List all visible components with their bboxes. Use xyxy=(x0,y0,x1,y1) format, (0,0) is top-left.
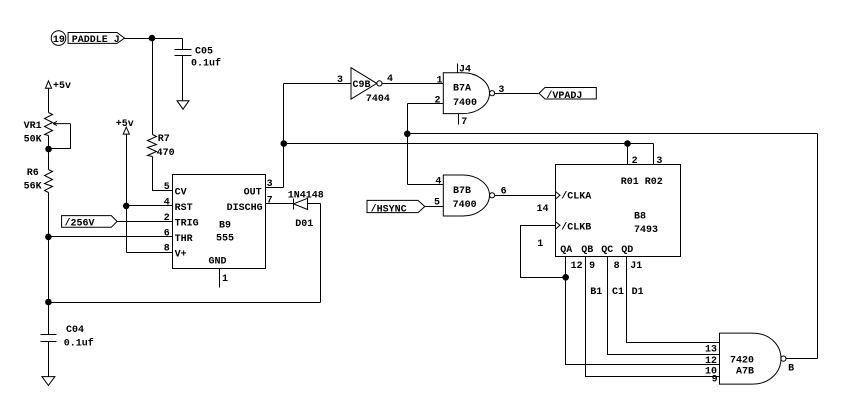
diode D01 xyxy=(293,198,320,209)
svg-text:0.1uf: 0.1uf xyxy=(64,338,94,350)
svg-text:4: 4 xyxy=(435,176,441,187)
svg-text:C9B: C9B xyxy=(353,80,371,91)
wire B7B pin4 xyxy=(408,184,444,186)
svg-text:A7B: A7B xyxy=(736,366,754,377)
wire feedback vertical xyxy=(407,104,409,185)
svg-text:1: 1 xyxy=(437,75,443,86)
svg-text:555: 555 xyxy=(216,234,234,245)
svg-text:B7B: B7B xyxy=(453,186,471,197)
svg-text:B9: B9 xyxy=(219,220,231,231)
wire feedback right vertical xyxy=(817,134,819,359)
svg-text:2: 2 xyxy=(435,96,441,107)
svg-text:1: 1 xyxy=(222,274,228,285)
svg-text:RST: RST xyxy=(175,203,193,214)
wire OUT vertical xyxy=(283,84,285,188)
node THR junction xyxy=(46,234,52,240)
wire paddle node down to R7 xyxy=(152,39,154,135)
svg-text:0.1uf: 0.1uf xyxy=(191,57,221,69)
wire paddle to C05 xyxy=(125,38,183,40)
svg-text:D1: D1 xyxy=(632,287,644,298)
potentiometer VR1 xyxy=(45,113,53,136)
svg-text:7: 7 xyxy=(267,195,273,206)
flag PADDLE J xyxy=(68,33,124,44)
ground below C05 xyxy=(177,101,189,110)
ground below C04 xyxy=(42,377,55,386)
svg-text:9: 9 xyxy=(712,375,718,386)
pin 14 stub B7A xyxy=(457,64,459,73)
svg-text:2: 2 xyxy=(632,156,638,167)
wire V+ xyxy=(127,252,173,254)
wire R7 to CV xyxy=(153,157,173,191)
svg-text:PADDLE J: PADDLE J xyxy=(72,35,120,46)
wire B7B out to CLKA xyxy=(495,195,556,197)
svg-text:7493: 7493 xyxy=(634,225,658,236)
wire C05 to ground xyxy=(182,56,184,101)
node RST junction xyxy=(123,203,129,209)
svg-text:12: 12 xyxy=(705,356,717,367)
svg-text:R7: R7 xyxy=(158,134,170,145)
resistor R6 xyxy=(45,170,53,193)
pin 3 R02 stub xyxy=(653,144,655,165)
svg-text:B: B xyxy=(788,364,794,375)
svg-text:/HSYNC: /HSYNC xyxy=(371,203,407,215)
connector pin circle 19 xyxy=(51,31,66,46)
svg-text:TRIG: TRIG xyxy=(175,218,199,229)
wire QB pin9 xyxy=(586,257,720,377)
svg-text:CV: CV xyxy=(175,187,187,198)
svg-text:C1: C1 xyxy=(612,287,624,298)
wire return line xyxy=(49,302,321,304)
svg-text:5: 5 xyxy=(164,182,170,193)
svg-text:1N4148: 1N4148 xyxy=(288,191,324,202)
svg-text:THR: THR xyxy=(175,234,193,245)
svg-text:/CLKA: /CLKA xyxy=(561,190,591,202)
nand gate B7B 7400 xyxy=(443,175,494,216)
svg-text:3: 3 xyxy=(337,75,343,86)
wire A7B out xyxy=(787,358,818,360)
flag /HSYNC xyxy=(367,200,425,212)
svg-text:1: 1 xyxy=(537,239,543,250)
svg-text:B7A: B7A xyxy=(453,84,471,95)
resistor R7 xyxy=(148,135,157,157)
timer U B9 555 box xyxy=(173,175,266,269)
svg-text:V+: V+ xyxy=(175,249,187,260)
wire down to C05 xyxy=(182,39,184,50)
svg-text:C04: C04 xyxy=(66,325,84,336)
flag /256V xyxy=(62,216,118,228)
wire wiper loop xyxy=(49,124,71,149)
svg-text:R6: R6 xyxy=(27,168,39,179)
wire +5v to VR1 xyxy=(48,88,50,112)
wire QA pin12 xyxy=(566,257,720,365)
svg-text:B1: B1 xyxy=(590,287,602,298)
svg-text:4: 4 xyxy=(164,197,170,208)
svg-text:J1: J1 xyxy=(630,261,642,272)
svg-text:470: 470 xyxy=(157,148,175,159)
svg-text:50K: 50K xyxy=(24,134,42,145)
svg-text:7400: 7400 xyxy=(453,200,477,211)
svg-text:5: 5 xyxy=(434,198,440,209)
svg-text:VR1: VR1 xyxy=(24,121,42,132)
svg-text:19: 19 xyxy=(53,35,65,46)
svg-text:OUT: OUT xyxy=(244,187,262,198)
pin 7 DISCHG stub xyxy=(266,203,294,205)
flag /VPADJ xyxy=(539,88,596,100)
node feedback branch xyxy=(405,131,411,137)
nand gate B7A 7400 xyxy=(443,73,494,114)
svg-text:B8: B8 xyxy=(634,211,646,222)
svg-text:+5v: +5v xyxy=(116,119,134,130)
node return junction xyxy=(46,299,52,305)
svg-text:/VPADJ: /VPADJ xyxy=(546,90,582,102)
clock arrow CLKB xyxy=(555,222,560,230)
wire RST xyxy=(127,205,173,207)
pin 1 GND stub xyxy=(219,269,221,288)
power +5v arrow left xyxy=(45,81,51,88)
wire reset line xyxy=(284,143,654,145)
svg-text:J4: J4 xyxy=(459,64,471,75)
wire to C9B input xyxy=(284,83,351,85)
svg-text:9: 9 xyxy=(589,261,595,272)
wire QC pin8 xyxy=(608,257,720,355)
svg-text:3: 3 xyxy=(656,156,662,167)
svg-text:GND: GND xyxy=(209,257,227,268)
counter B8 7493 box xyxy=(556,165,681,257)
node paddle junction xyxy=(149,35,155,41)
wire THR xyxy=(49,236,173,238)
svg-text:6: 6 xyxy=(164,228,170,239)
svg-text:3: 3 xyxy=(498,85,504,96)
svg-text:QB: QB xyxy=(581,245,593,256)
svg-text:+5v: +5v xyxy=(53,81,71,92)
VR1 wiper arrow xyxy=(53,121,70,125)
svg-text:7420: 7420 xyxy=(730,356,754,367)
svg-text:7400: 7400 xyxy=(453,98,477,109)
svg-text:7: 7 xyxy=(461,117,467,128)
node wiper junction xyxy=(46,146,52,152)
wire diode return vertical xyxy=(320,204,322,303)
wire VR1 to R6 xyxy=(48,136,50,170)
wire feedback top xyxy=(408,133,818,135)
svg-text:2: 2 xyxy=(164,213,170,224)
svg-text:QC: QC xyxy=(601,245,613,256)
svg-text:QD: QD xyxy=(621,245,633,256)
svg-text:3: 3 xyxy=(267,179,273,190)
wire B7A out xyxy=(495,93,539,95)
wire +5v rail middle xyxy=(126,134,128,252)
svg-text:14: 14 xyxy=(537,204,549,215)
svg-text:7404: 7404 xyxy=(366,94,390,105)
wire QD pin11 xyxy=(627,257,720,343)
capacitor C05 xyxy=(175,50,192,56)
capacitor C04 xyxy=(41,335,57,342)
svg-text:6: 6 xyxy=(501,187,507,198)
inverter C9B 7404 xyxy=(351,68,382,99)
svg-text:8: 8 xyxy=(614,261,620,272)
svg-text:12: 12 xyxy=(571,261,583,272)
svg-text:QA: QA xyxy=(560,245,572,256)
node reset branch xyxy=(625,141,631,147)
node OUT branch xyxy=(281,141,287,147)
wire CLKB loop xyxy=(521,226,566,278)
svg-text:C05: C05 xyxy=(195,47,213,58)
power +5v arrow middle xyxy=(123,127,129,134)
nand gate A7B 7420 xyxy=(720,333,787,384)
clock arrow CLKA xyxy=(555,192,560,200)
pin 3 OUT stub xyxy=(266,187,284,189)
wire left rail down xyxy=(48,193,50,335)
wire HSYNC to pin5 xyxy=(425,206,444,208)
svg-text:DISCHG: DISCHG xyxy=(227,203,263,214)
svg-text:D01: D01 xyxy=(295,219,313,230)
svg-text:R01 R02: R01 R02 xyxy=(621,177,663,188)
node QA junction xyxy=(563,275,569,281)
svg-text:/256V: /256V xyxy=(65,217,95,229)
wire C9B out to B7A pin1 xyxy=(383,83,444,85)
wire B7A pin2 xyxy=(408,103,444,105)
pin 2 R01 stub xyxy=(627,144,629,165)
svg-text:/CLKB: /CLKB xyxy=(561,222,591,234)
svg-text:4: 4 xyxy=(387,74,393,85)
wire TRIG xyxy=(118,221,173,223)
svg-text:56K: 56K xyxy=(24,182,42,193)
svg-text:13: 13 xyxy=(705,345,717,356)
wire C04 to ground xyxy=(48,342,50,377)
pin 7 stub B7A xyxy=(458,114,460,125)
svg-text:8: 8 xyxy=(164,244,170,255)
